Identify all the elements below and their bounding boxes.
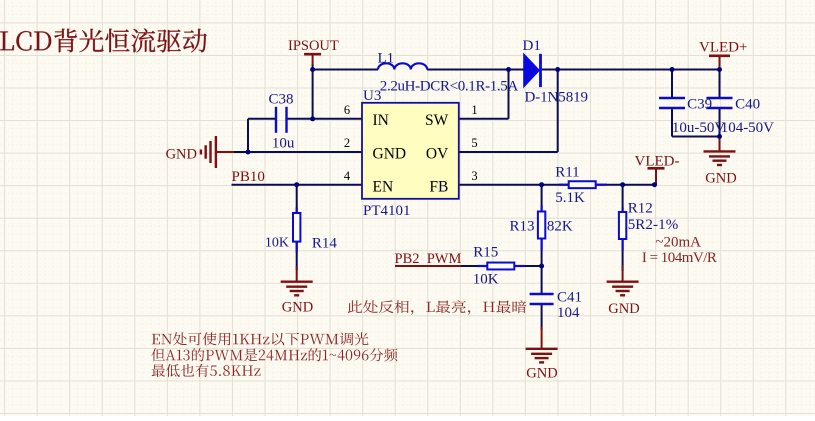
- svg-text:GND: GND: [282, 300, 313, 316]
- svg-text:D1: D1: [523, 38, 541, 54]
- svg-text:PB10: PB10: [232, 169, 265, 185]
- svg-text:104: 104: [557, 305, 580, 321]
- svg-text:PT4101: PT4101: [363, 203, 411, 219]
- svg-text:4: 4: [344, 169, 351, 183]
- svg-text:10u-50V: 10u-50V: [672, 120, 725, 136]
- svg-text:GND: GND: [705, 170, 736, 186]
- svg-text:5.1K: 5.1K: [555, 190, 585, 206]
- svg-text:GND: GND: [608, 301, 639, 317]
- svg-text:C40: C40: [735, 97, 760, 113]
- svg-text:R12: R12: [628, 200, 653, 216]
- svg-text:C41: C41: [557, 289, 582, 305]
- svg-text:R15: R15: [473, 245, 498, 261]
- svg-text:EN: EN: [373, 178, 394, 195]
- svg-text:82K: 82K: [547, 218, 573, 234]
- svg-text:GND: GND: [526, 365, 557, 381]
- svg-text:104-50V: 104-50V: [721, 120, 774, 136]
- svg-text:SW: SW: [425, 112, 449, 129]
- svg-text:D-1N5819: D-1N5819: [525, 89, 589, 105]
- svg-text:2: 2: [344, 136, 350, 150]
- svg-text:VLED-: VLED-: [635, 153, 680, 169]
- svg-text:5: 5: [471, 136, 477, 150]
- svg-text:2.2uH-DCR<0.1R-1.5A: 2.2uH-DCR<0.1R-1.5A: [380, 78, 519, 94]
- svg-text:6: 6: [344, 103, 350, 117]
- svg-text:PB2 PWM: PB2 PWM: [395, 251, 462, 267]
- svg-text:R14: R14: [312, 235, 338, 251]
- svg-text:IN: IN: [373, 112, 389, 129]
- svg-text:10K: 10K: [473, 271, 499, 287]
- svg-text:3: 3: [471, 169, 477, 183]
- svg-text:IPSOUT: IPSOUT: [288, 38, 339, 54]
- svg-text:10K: 10K: [265, 236, 289, 251]
- svg-text:OV: OV: [426, 145, 449, 162]
- svg-text:GND: GND: [373, 145, 407, 162]
- svg-text:R11: R11: [555, 164, 579, 180]
- svg-text:I = 104mV/R: I = 104mV/R: [642, 250, 717, 266]
- svg-text:R13: R13: [510, 218, 535, 234]
- svg-text:5R2-1%: 5R2-1%: [628, 217, 679, 233]
- svg-text:1: 1: [471, 103, 477, 117]
- svg-text:~20mA: ~20mA: [655, 234, 701, 250]
- svg-text:C39: C39: [687, 97, 712, 113]
- svg-text:FB: FB: [429, 178, 448, 195]
- svg-text:GND: GND: [166, 146, 197, 162]
- svg-text:C38: C38: [269, 92, 294, 108]
- svg-text:U3: U3: [363, 88, 381, 104]
- svg-text:10u: 10u: [272, 136, 295, 152]
- svg-text:L1: L1: [378, 50, 395, 66]
- svg-text:VLED+: VLED+: [699, 40, 747, 56]
